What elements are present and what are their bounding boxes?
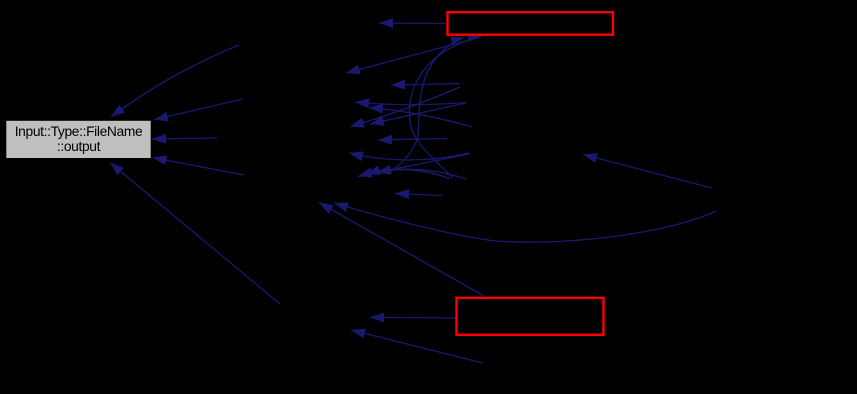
curved edge from node N up into red box 1 <box>409 34 481 178</box>
curved edge from node L up into red box 1 <box>389 37 464 172</box>
edge into output from node E (long) <box>110 163 280 305</box>
edge into output from node D <box>153 155 245 175</box>
red box 1 (top highlighted node) <box>448 12 614 35</box>
edge into node G2 (horizontal) <box>391 80 460 90</box>
edge into node L third <box>377 154 469 175</box>
edge into node H first <box>355 98 466 108</box>
long curved edge from node P into node R (swoop) <box>334 202 716 242</box>
edge from node T into node S <box>351 329 483 364</box>
edge into output from node C <box>152 134 217 144</box>
edge into output from node B <box>154 99 243 122</box>
edge from red box 2 into node R <box>319 203 484 297</box>
edge into output from node A (curved) <box>111 45 239 117</box>
edge from node P into node Q <box>583 153 712 188</box>
edge from red box 1 corner into node F <box>346 37 481 74</box>
edge into node L first <box>358 168 466 179</box>
edge from red box 2 into node S (horizontal) <box>370 312 456 322</box>
edge into node L second <box>366 165 450 178</box>
edge into node H second <box>369 104 472 127</box>
svg-text:::output: ::output <box>57 139 101 154</box>
svg-text:Input::Type::FileName: Input::Type::FileName <box>15 124 143 139</box>
red box 2 (bottom highlighted node) <box>457 298 604 335</box>
edge into node I first <box>370 103 466 126</box>
edge into node M (horizontal) <box>395 189 443 199</box>
edge into node J (horizontal) <box>378 135 447 145</box>
edge into node I second <box>350 87 460 128</box>
edge into node K <box>349 151 469 161</box>
node Input::Type::FileName::output (grey box) <box>6 120 151 158</box>
edge from red box 1 into node A <box>379 18 446 28</box>
